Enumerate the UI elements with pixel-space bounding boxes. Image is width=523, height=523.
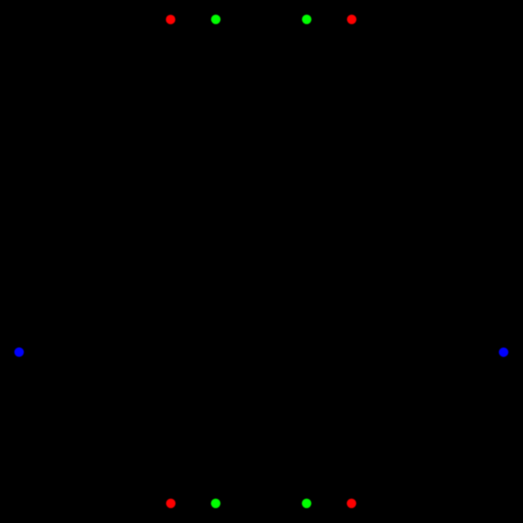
node blue left: [14, 347, 24, 357]
node green top-left: [211, 15, 221, 25]
node red top-right: [347, 15, 357, 25]
node blue right: [499, 347, 509, 357]
node green bottom-left: [211, 499, 221, 509]
node red bottom-right: [347, 499, 357, 509]
node green top-right: [302, 15, 312, 25]
node red top-left: [166, 15, 176, 25]
node green bottom-right: [302, 499, 312, 509]
node red bottom-left: [166, 499, 176, 509]
